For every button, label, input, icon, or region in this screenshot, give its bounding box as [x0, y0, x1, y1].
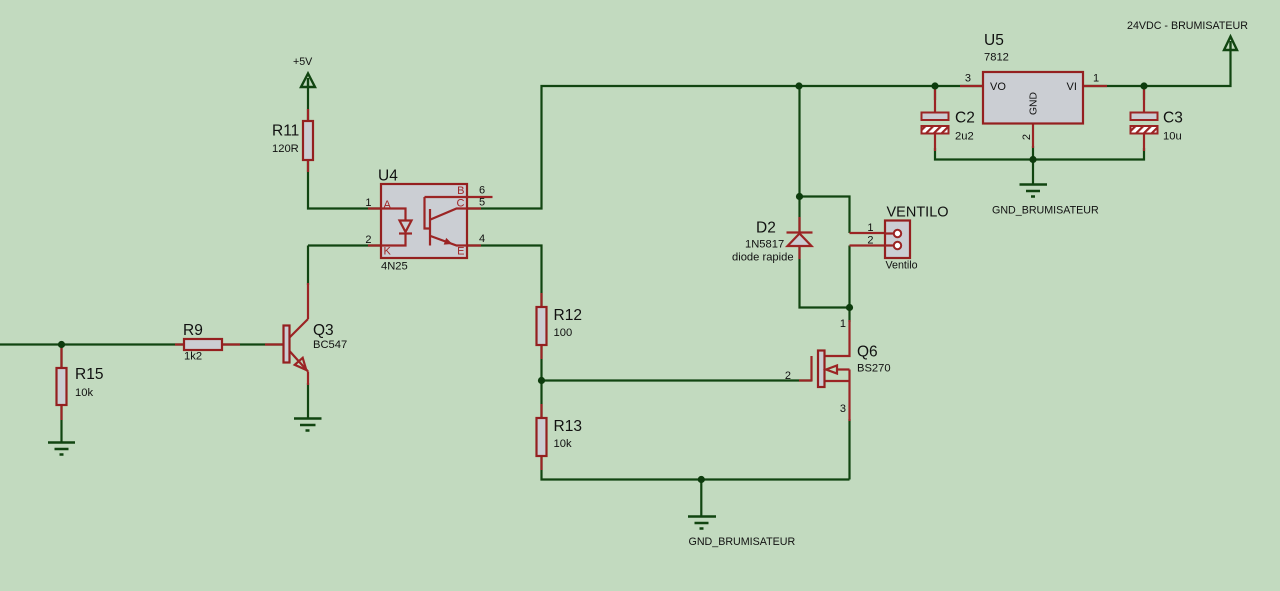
svg-text:3: 3: [840, 403, 846, 415]
svg-text:Q6: Q6: [857, 344, 878, 361]
svg-text:K: K: [384, 246, 392, 258]
svg-text:120R: 120R: [272, 143, 299, 155]
svg-text:2: 2: [1021, 134, 1033, 140]
svg-text:100: 100: [554, 327, 573, 339]
svg-text:R13: R13: [554, 418, 582, 435]
svg-text:D2: D2: [756, 220, 776, 237]
svg-text:diode rapide: diode rapide: [732, 252, 794, 264]
svg-text:E: E: [457, 246, 464, 258]
svg-text:R11: R11: [272, 123, 299, 140]
svg-text:GND: GND: [1029, 92, 1040, 115]
svg-text:5: 5: [479, 197, 485, 209]
svg-text:GND_BRUMISATEUR: GND_BRUMISATEUR: [992, 205, 1099, 217]
svg-text:B: B: [457, 185, 464, 197]
svg-text:R9: R9: [183, 322, 203, 339]
svg-text:2: 2: [867, 235, 873, 247]
svg-text:3: 3: [965, 73, 971, 85]
svg-text:2u2: 2u2: [955, 131, 974, 143]
svg-text:GND_BRUMISATEUR: GND_BRUMISATEUR: [689, 536, 796, 548]
svg-text:2: 2: [365, 234, 371, 246]
svg-text:VI: VI: [1067, 81, 1077, 93]
svg-text:U4: U4: [378, 168, 398, 185]
svg-text:4N25: 4N25: [381, 261, 408, 273]
svg-text:VO: VO: [990, 81, 1006, 93]
svg-text:Q3: Q3: [313, 322, 334, 339]
svg-text:10k: 10k: [75, 387, 93, 399]
svg-text:1: 1: [1093, 73, 1099, 85]
svg-text:U5: U5: [984, 32, 1004, 49]
svg-text:BC547: BC547: [313, 339, 347, 351]
svg-text:+5V: +5V: [293, 56, 313, 68]
svg-text:1N5817: 1N5817: [745, 239, 784, 251]
svg-text:7812: 7812: [984, 52, 1009, 64]
svg-text:C: C: [457, 198, 465, 210]
svg-text:1: 1: [867, 222, 873, 234]
svg-text:VENTILO: VENTILO: [887, 205, 949, 221]
svg-text:BS270: BS270: [857, 363, 891, 375]
svg-text:R15: R15: [75, 366, 103, 383]
svg-text:A: A: [384, 199, 392, 211]
svg-text:1: 1: [365, 197, 371, 209]
svg-text:2: 2: [785, 370, 791, 382]
svg-text:4: 4: [479, 233, 485, 245]
svg-text:C2: C2: [955, 110, 975, 127]
svg-text:C3: C3: [1163, 110, 1183, 127]
svg-text:10u: 10u: [1163, 131, 1182, 143]
svg-text:R12: R12: [554, 307, 582, 324]
svg-text:1: 1: [840, 318, 846, 330]
svg-text:24VDC - BRUMISATEUR: 24VDC - BRUMISATEUR: [1127, 20, 1248, 32]
svg-text:1k2: 1k2: [184, 351, 202, 363]
svg-text:Ventilo: Ventilo: [886, 260, 918, 272]
svg-text:10k: 10k: [554, 438, 572, 450]
svg-text:6: 6: [479, 185, 485, 197]
